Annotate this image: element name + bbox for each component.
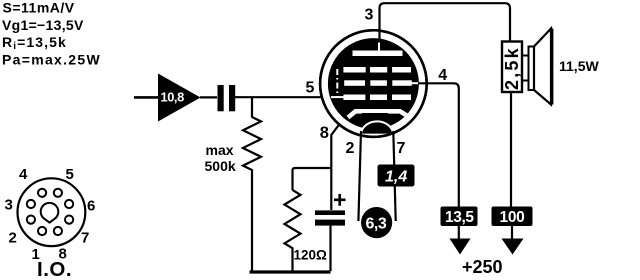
grid side connection dash line (336, 69, 338, 97)
svg-text:3: 3 (365, 7, 374, 24)
wire 2,5k box down to 100 box (510, 92, 512, 208)
socket pin 1 hole (38, 227, 46, 235)
tube inner disc (328, 38, 419, 129)
wire capacitor to bottom rail (329, 226, 331, 271)
socket center spigot with key (41, 203, 59, 223)
anode bar (353, 51, 403, 57)
svg-text:10,8: 10,8 (161, 90, 185, 105)
socket pin 6 hole (65, 200, 73, 208)
circle 6,3 (361, 207, 392, 238)
cathode resistor 120 ohm (285, 190, 301, 271)
svg-text:3: 3 (5, 197, 13, 214)
svg-text:13,5: 13,5 (445, 209, 474, 226)
heater wire pin 7 (393, 131, 395, 221)
socket pin 7 hole (65, 216, 73, 224)
svg-text:7: 7 (81, 230, 89, 247)
wire triangle to coupling capacitor (200, 96, 217, 98)
svg-text:6: 6 (87, 198, 95, 215)
speaker connection stubs (522, 56, 529, 81)
pentode tube envelope (320, 30, 427, 137)
coupling capacitor C (218, 85, 236, 111)
socket pin 5 hole (54, 189, 62, 197)
socket outer circle (18, 178, 86, 246)
heater wire pin 2 (358, 131, 361, 221)
tube envelope outline restroke (320, 30, 427, 137)
socket base diagram (18, 178, 86, 246)
grid row 2 (dashes) (344, 80, 412, 86)
socket pin 2 hole (27, 216, 35, 224)
svg-text:500k: 500k (205, 158, 236, 174)
svg-text:2,5k: 2,5k (502, 46, 522, 90)
screen wire pin 4 (418, 83, 459, 207)
cathode branch wire to 120 ohm resistor (293, 168, 331, 190)
svg-text:S=11mA/V: S=11mA/V (3, 0, 75, 16)
wire capacitor to grid pin 5 (235, 96, 330, 98)
heater dome (361, 121, 393, 133)
anode stub (378, 43, 380, 51)
loudspeaker (529, 47, 535, 91)
svg-text:4: 4 (438, 67, 447, 84)
arrow to +250 (screen) (450, 239, 471, 255)
box 100 (anode) (492, 207, 533, 227)
svg-text:Pa=max.25W: Pa=max.25W (2, 52, 101, 68)
svg-text:11,5W: 11,5W (559, 58, 599, 74)
socket pin 8 hole (54, 227, 62, 235)
svg-text:8: 8 (320, 124, 329, 142)
box 13,5 (screen) (441, 207, 478, 227)
input wire (134, 96, 158, 99)
grid row 1 (dashes) (343, 67, 411, 73)
svg-text:Ri=13,5k: Ri=13,5k (2, 34, 67, 52)
anode wire pin 3 to top rail and to output box (380, 3, 511, 41)
svg-text:100: 100 (500, 209, 525, 226)
svg-text:max: max (206, 142, 234, 158)
svg-text:1,4: 1,4 (385, 169, 407, 186)
svg-text:5: 5 (66, 166, 74, 183)
socket pin number labels (5, 166, 96, 263)
socket pin 4 hole (38, 189, 46, 197)
svg-text:6,3: 6,3 (366, 216, 387, 233)
wire 100 box to arrow (511, 225, 513, 240)
svg-text:4: 4 (19, 166, 28, 183)
wire 13,5 box to arrow (458, 225, 460, 240)
control grid stub to pin 5 (331, 96, 344, 98)
input signal triangle (driver) (158, 74, 201, 122)
arrow to +250 (anode) (502, 239, 524, 255)
cathode split line (362, 113, 388, 115)
svg-text:120Ω: 120Ω (294, 248, 328, 263)
svg-text:5: 5 (306, 80, 315, 97)
socket pin 3 hole (27, 200, 35, 208)
svg-text:7: 7 (397, 140, 406, 157)
grid row 3 (dashes) (343, 95, 411, 101)
svg-text:+250: +250 (462, 257, 503, 277)
cathode electrode (348, 111, 411, 118)
tube parameter text block (2, 0, 101, 68)
bottom rail wire (250, 270, 331, 273)
screen grid stub to pin 4 (411, 82, 420, 84)
box 1,4 (378, 165, 415, 187)
svg-text:2: 2 (9, 230, 17, 247)
svg-text:2: 2 (346, 140, 355, 157)
grid resistor max 500k (243, 97, 261, 271)
svg-text:I.O.: I.O. (37, 258, 72, 280)
cathode wire from pin 8 (331, 114, 347, 210)
cathode bypass capacitor (electrolytic) (315, 210, 345, 225)
plus sign (334, 194, 346, 206)
svg-text:Vg1=−13,5V: Vg1=−13,5V (2, 17, 84, 33)
value label max 500k (205, 142, 236, 174)
load box 2,5k (502, 42, 522, 93)
